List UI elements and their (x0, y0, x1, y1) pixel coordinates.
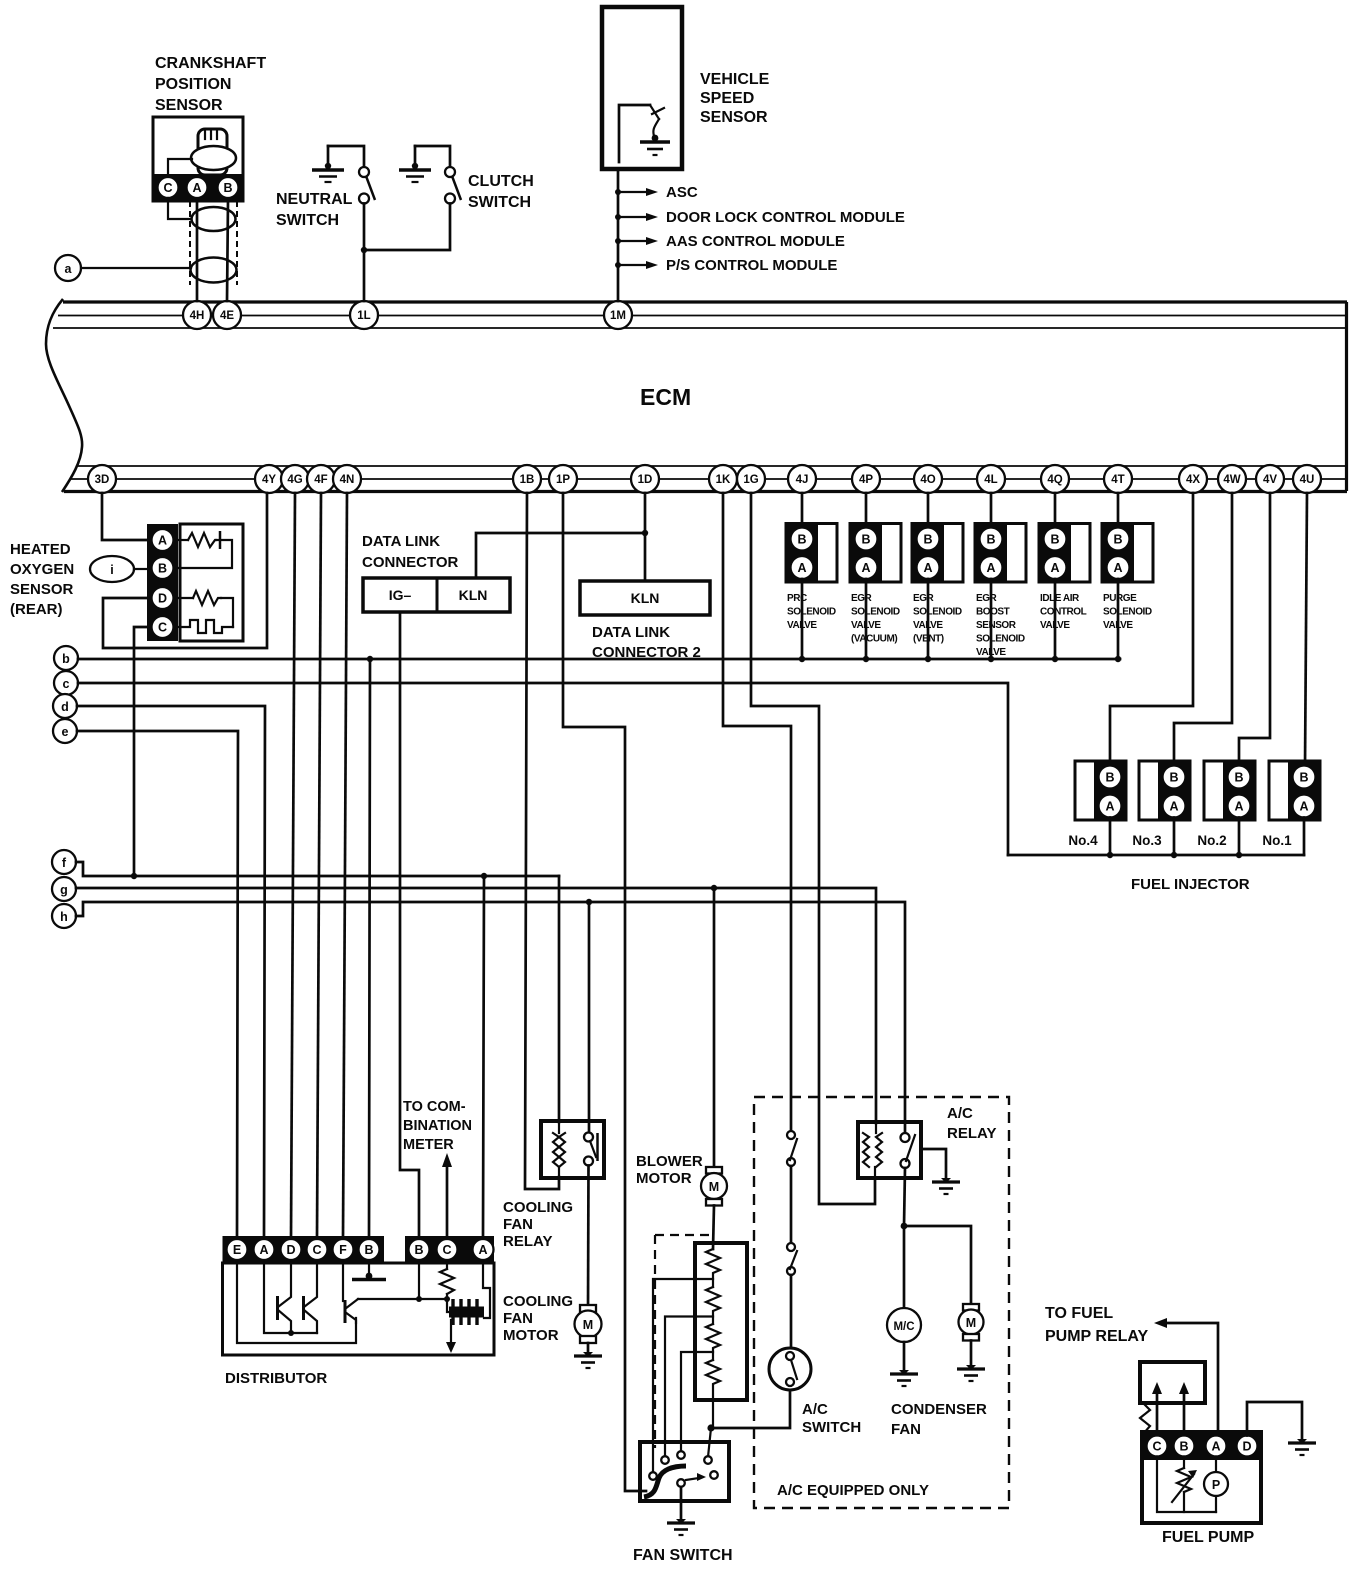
distributor pin A2 wire to coil (483, 1263, 490, 1318)
wire i to O2 pin B (134, 568, 147, 570)
svg-text:4O: 4O (920, 474, 935, 486)
wire O2 pin C down to node f line (134, 627, 147, 876)
svg-text:B: B (797, 533, 806, 547)
wire ECM 4Y to O2 pin D (103, 493, 267, 648)
svg-text:h: h (60, 910, 68, 924)
tap to P/S control module (615, 257, 837, 274)
wire blower motor feed (713, 888, 716, 1167)
svg-text:B: B (1179, 1440, 1188, 1454)
ECM pin 4P (852, 465, 880, 493)
fuel pump connector strip (1142, 1432, 1261, 1460)
svg-text:VALVE: VALVE (851, 620, 881, 631)
svg-text:B: B (414, 1243, 423, 1257)
svg-text:C: C (442, 1243, 451, 1257)
svg-text:4H: 4H (190, 310, 205, 322)
wire clutch switch to neutral wire (364, 204, 450, 251)
tap to ASC (615, 184, 698, 201)
node f (52, 850, 76, 874)
wire A/C switch to fan switch junction (711, 1390, 790, 1428)
data link connector label (362, 533, 459, 571)
tap to AAS control module (615, 233, 845, 250)
vehicle speed sensor label (700, 71, 770, 126)
wire to magnetic clutch (903, 1226, 906, 1308)
svg-text:COOLING: COOLING (503, 1293, 573, 1310)
data link connector (363, 578, 510, 612)
fan switch (640, 1442, 729, 1501)
svg-text:B: B (1050, 533, 1059, 547)
wire f line (76, 862, 559, 876)
junction g / blower motor (711, 885, 717, 891)
switch contact pair 2 (on 1K line) (787, 1243, 797, 1348)
svg-text:B: B (1169, 771, 1178, 785)
condenser fan label (891, 1401, 987, 1438)
svg-text:MOTOR: MOTOR (636, 1170, 692, 1187)
svg-text:FAN: FAN (503, 1310, 533, 1327)
svg-text:SWITCH: SWITCH (468, 194, 531, 211)
wire h line (76, 902, 905, 1134)
PRC solenoid valve (786, 493, 837, 662)
svg-text:4Q: 4Q (1047, 474, 1062, 486)
idle air control valve (1039, 493, 1090, 662)
svg-text:BINATION: BINATION (403, 1118, 472, 1134)
svg-text:4N: 4N (340, 474, 355, 486)
fuel pump ground (1288, 1439, 1316, 1455)
node a (55, 255, 81, 281)
svg-text:A: A (259, 1243, 268, 1257)
wire h branch down to cooling fan relay switch (588, 902, 591, 1133)
svg-text:A: A (1105, 800, 1114, 814)
A/C relay label (947, 1105, 996, 1142)
svg-text:COOLING: COOLING (503, 1199, 573, 1216)
ECM pin 1K (709, 465, 737, 493)
svg-text:A: A (192, 181, 201, 195)
blower resistor box (695, 1243, 747, 1400)
cooling fan relay label (503, 1199, 573, 1250)
svg-text:g: g (60, 883, 68, 897)
svg-text:SWITCH: SWITCH (802, 1419, 861, 1436)
wire g line (76, 888, 876, 1123)
ECM pin 4T (1104, 465, 1132, 493)
svg-text:OXYGEN: OXYGEN (10, 561, 74, 578)
ECM pin 4V (1256, 465, 1284, 493)
neutral switch label (276, 191, 353, 229)
svg-text:A: A (158, 534, 167, 548)
svg-text:KLN: KLN (631, 590, 660, 606)
svg-text:IDLE AIR: IDLE AIR (1040, 593, 1080, 604)
wire ECM 4F to distributor pin C (317, 493, 321, 1236)
svg-text:B: B (1299, 771, 1308, 785)
wire ECM 1B to cooling fan relay coil (525, 493, 559, 1189)
junction resistor bottom / A/C switch (707, 1424, 714, 1431)
node e (53, 719, 77, 743)
svg-text:SOLENOID: SOLENOID (851, 607, 900, 618)
svg-text:RELAY: RELAY (947, 1125, 996, 1142)
junction h branch to cooling fan relay switch (586, 899, 592, 905)
svg-text:FAN: FAN (891, 1421, 921, 1438)
transistor Q1 (278, 1263, 292, 1333)
cooling fan motor label (503, 1293, 573, 1344)
svg-text:TO FUEL: TO FUEL (1045, 1305, 1113, 1322)
ECM pin 1M (604, 301, 632, 329)
svg-text:TO COM-: TO COM- (403, 1099, 466, 1115)
svg-text:A: A (478, 1243, 487, 1257)
wire b bus to distributor pin B (369, 659, 370, 1236)
svg-text:BOOST: BOOST (976, 607, 1010, 618)
variable resistor R3 (fuel sender) (1172, 1457, 1197, 1513)
svg-text:A: A (1169, 800, 1178, 814)
svg-text:RELAY: RELAY (503, 1233, 552, 1250)
cooling fan motor ground (574, 1352, 602, 1368)
svg-text:P/S CONTROL MODULE: P/S CONTROL MODULE (666, 257, 837, 274)
svg-text:AAS CONTROL MODULE: AAS CONTROL MODULE (666, 233, 845, 250)
svg-text:1L: 1L (357, 310, 370, 322)
distributor pin E internal wire (237, 1263, 356, 1343)
svg-text:CLUTCH: CLUTCH (468, 173, 534, 190)
node i (90, 556, 134, 582)
ECM pin 4L (977, 465, 1005, 493)
data link connector 2 label (592, 624, 701, 661)
ECM pin 4J (788, 465, 816, 493)
svg-text:BLOWER: BLOWER (636, 1153, 703, 1170)
wire VSS to ECM 1M (617, 169, 620, 301)
distributor internal rail (358, 1298, 447, 1300)
svg-text:CONDENSER: CONDENSER (891, 1401, 987, 1418)
ECM pin 3D (88, 465, 116, 493)
svg-text:A: A (1113, 561, 1122, 575)
wire ECM 4N to distributor pin F (343, 493, 347, 1236)
A/C equipped only dashed box (754, 1097, 1009, 1508)
distributor connector strip 1 (223, 1236, 385, 1263)
svg-text:4E: 4E (220, 310, 234, 322)
svg-text:FAN SWITCH: FAN SWITCH (633, 1547, 733, 1564)
crankshaft position sensor (153, 117, 243, 285)
svg-text:a: a (65, 262, 73, 276)
svg-text:SOLENOID: SOLENOID (1103, 607, 1152, 618)
svg-text:DOOR LOCK CONTROL MODULE: DOOR LOCK CONTROL MODULE (666, 209, 905, 226)
node g (52, 877, 76, 901)
fuel injector No.1 (1262, 761, 1320, 855)
svg-text:B: B (1113, 533, 1122, 547)
transistor Q2 (304, 1263, 318, 1333)
svg-text:EGR: EGR (976, 593, 998, 604)
blower motor M2 (701, 1167, 727, 1249)
svg-text:SOLENOID: SOLENOID (913, 607, 962, 618)
svg-text:4F: 4F (314, 474, 327, 486)
svg-text:FUEL INJECTOR: FUEL INJECTOR (1131, 876, 1250, 893)
ECM pin 4W (1218, 465, 1246, 493)
svg-text:VEHICLE: VEHICLE (700, 71, 770, 88)
svg-text:M: M (583, 1318, 593, 1332)
svg-text:B: B (158, 562, 167, 576)
ECM module band (46, 299, 1347, 492)
svg-text:F: F (339, 1243, 347, 1257)
svg-text:(REAR): (REAR) (10, 601, 63, 618)
wire blower resistor tap 3 (681, 1352, 713, 1452)
svg-text:A: A (1299, 800, 1308, 814)
svg-text:D: D (286, 1243, 295, 1257)
svg-text:d: d (61, 700, 69, 714)
node b (54, 646, 78, 670)
svg-text:4W: 4W (1223, 474, 1240, 486)
svg-text:B: B (986, 533, 995, 547)
wire e to distributor pin E (77, 731, 238, 1236)
magnetic clutch ground (890, 1370, 918, 1386)
svg-text:4U: 4U (1300, 474, 1315, 486)
A/C relay (858, 1122, 921, 1178)
svg-text:POSITION: POSITION (155, 76, 231, 93)
wire f end down to cooling fan relay coil (558, 876, 561, 1122)
vehicle speed sensor (602, 7, 682, 169)
svg-text:4P: 4P (859, 474, 873, 486)
svg-text:SENSOR: SENSOR (976, 620, 1017, 631)
junction distributor rail (288, 1330, 294, 1336)
heated oxygen sensor (rear) (147, 524, 243, 641)
wire crank B pin to ECM 4E (227, 201, 228, 301)
svg-text:SOLENOID: SOLENOID (976, 634, 1025, 645)
wire ECM 4W to injector No.3 (1174, 493, 1232, 766)
ECM pin 4G (281, 465, 309, 493)
svg-text:DISTRIBUTOR: DISTRIBUTOR (225, 1370, 327, 1387)
svg-text:1P: 1P (556, 474, 570, 486)
svg-text:VALVE: VALVE (976, 647, 1006, 658)
svg-text:CONNECTOR: CONNECTOR (362, 554, 459, 571)
A/C switch (769, 1348, 811, 1390)
wire/arrow to fuel pump relay (1154, 1318, 1218, 1436)
svg-text:B: B (1105, 771, 1114, 785)
svg-text:KLN: KLN (459, 587, 488, 603)
svg-text:c: c (63, 677, 70, 691)
wire a to sensor (81, 267, 191, 269)
svg-text:M: M (709, 1180, 719, 1194)
svg-text:1K: 1K (716, 474, 731, 486)
svg-text:DATA LINK: DATA LINK (362, 533, 440, 550)
svg-text:IG–: IG– (389, 587, 412, 603)
wire ECM 4X to injector No.4 (1110, 493, 1193, 766)
svg-text:HEATED: HEATED (10, 541, 71, 558)
svg-text:C: C (163, 181, 172, 195)
condenser fan motor ground (957, 1365, 985, 1381)
svg-text:EGR: EGR (851, 593, 873, 604)
junction f / O2 C (131, 873, 137, 879)
svg-text:A: A (1211, 1440, 1220, 1454)
node d (53, 694, 77, 718)
svg-text:B: B (364, 1243, 373, 1257)
ECM pin 4O (914, 465, 942, 493)
svg-text:4Y: 4Y (262, 474, 276, 486)
svg-text:SENSOR: SENSOR (10, 581, 74, 598)
A/C relay ground (921, 1149, 960, 1194)
cooling fan relay (541, 1121, 604, 1178)
ECM pin 4Y (255, 465, 283, 493)
svg-text:B: B (861, 533, 870, 547)
junction 1D branch (642, 530, 648, 536)
svg-text:CRANKSHAFT: CRANKSHAFT (155, 55, 266, 72)
svg-text:b: b (62, 652, 70, 666)
to fuel pump relay label (1045, 1305, 1148, 1345)
svg-text:B: B (1234, 771, 1243, 785)
junction b bus to distributor pin B (367, 656, 373, 662)
svg-text:e: e (62, 725, 69, 739)
wire IG- to distributor 2 pin B (400, 612, 419, 1236)
svg-text:M: M (966, 1316, 976, 1330)
blower resistor dashed outline (655, 1235, 710, 1448)
svg-text:VALVE: VALVE (787, 620, 817, 631)
magnetic clutch M/C (887, 1308, 921, 1372)
crankshaft position sensor label (155, 55, 266, 114)
wire fuel pump D to ground (1247, 1402, 1302, 1441)
svg-text:A: A (861, 561, 870, 575)
arrow fuel pump C into box (1152, 1382, 1162, 1432)
svg-text:PUMP RELAY: PUMP RELAY (1045, 1328, 1148, 1345)
wire neutral switch to ECM 1L (363, 204, 366, 302)
wire d to distributor pin A (77, 706, 265, 1236)
svg-text:VALVE: VALVE (913, 620, 943, 631)
ECM pin 4F (307, 465, 335, 493)
svg-text:SOLENOID: SOLENOID (787, 607, 836, 618)
svg-text:No.2: No.2 (1197, 833, 1226, 848)
fan switch ground (667, 1487, 695, 1535)
svg-text:FUEL PUMP: FUEL PUMP (1162, 1529, 1254, 1546)
svg-text:i: i (110, 563, 113, 577)
svg-text:C: C (1152, 1440, 1161, 1454)
wire ECM 1K to A/C switch circuit (723, 493, 791, 1131)
ECM pin 1B (513, 465, 541, 493)
ECM pin 4X (1179, 465, 1207, 493)
neutral switch ground (312, 146, 344, 182)
svg-text:(VACUUM): (VACUUM) (851, 634, 897, 645)
svg-text:C: C (312, 1243, 321, 1257)
ECM pin 4Q (1041, 465, 1069, 493)
fuel pump box (1142, 1432, 1261, 1523)
svg-text:DATA LINK: DATA LINK (592, 624, 670, 641)
svg-text:3D: 3D (95, 474, 110, 486)
EGR boost sensor solenoid valve (975, 493, 1026, 662)
transistor Q3 (343, 1263, 358, 1323)
wire crank A pin to ECM 4H (196, 201, 199, 301)
svg-text:1B: 1B (520, 474, 535, 486)
spark output arrow (446, 1320, 456, 1353)
svg-text:A/C: A/C (802, 1401, 828, 1418)
svg-text:NEUTRAL: NEUTRAL (276, 191, 353, 208)
svg-text:CONTROL: CONTROL (1040, 607, 1087, 618)
svg-text:METER: METER (403, 1137, 454, 1153)
svg-text:1G: 1G (743, 474, 758, 486)
resistor R2 (blower) chain (706, 1249, 720, 1428)
wire junction to fan switch (708, 1428, 711, 1457)
node c (54, 671, 78, 695)
neutral switch (328, 146, 375, 204)
fuel pump check connector box (1140, 1362, 1205, 1403)
fuel pump internal wires (1157, 1457, 1216, 1513)
wire blower resistor tap 1 (653, 1279, 713, 1473)
wire ECM 4U to injector No.1 (1305, 493, 1307, 766)
ECM pin 4N (333, 465, 361, 493)
svg-text:P: P (1212, 1478, 1220, 1492)
svg-text:ECM: ECM (640, 384, 691, 410)
distributor pin B2 wire to rail (418, 1263, 420, 1299)
wire ECM 4G to distributor pin D (291, 493, 295, 1236)
arrow fuel pump B into box (1179, 1382, 1189, 1432)
svg-text:A: A (923, 561, 932, 575)
heated oxygen sensor label (10, 541, 74, 618)
blower motor label (636, 1153, 703, 1187)
wire fuel injector bus (1008, 854, 1304, 857)
svg-text:No.3: No.3 (1132, 833, 1162, 848)
wire A/C relay switch to condenser fans (904, 1168, 905, 1226)
svg-text:1D: 1D (638, 474, 653, 486)
svg-text:PURGE: PURGE (1103, 593, 1137, 604)
svg-text:No.1: No.1 (1262, 833, 1292, 848)
junction neutral/clutch (361, 247, 367, 253)
purge solenoid valve (1102, 493, 1153, 662)
arrow to combination meter (442, 1153, 452, 1236)
distributor pin A internal wire (264, 1263, 317, 1333)
svg-text:M/C: M/C (893, 1321, 914, 1333)
svg-text:E: E (233, 1243, 241, 1257)
svg-text:A: A (797, 561, 806, 575)
wire ECM 1D to data link connectors (476, 493, 645, 578)
wire c to fuel injector bus (78, 683, 1008, 855)
svg-text:SWITCH: SWITCH (276, 212, 339, 229)
svg-text:4L: 4L (984, 474, 997, 486)
resistor R1 (distributor) (440, 1263, 454, 1302)
wire ECM 1G to A/C relay coil (751, 493, 875, 1204)
to combination meter label (403, 1099, 472, 1153)
ECM pin 4E (213, 301, 241, 329)
svg-text:B: B (223, 181, 232, 195)
svg-text:A: A (986, 561, 995, 575)
distributor internal ground (352, 1263, 386, 1280)
wire b to solenoid valve bus (78, 658, 1120, 661)
distributor connector strip 2 (405, 1236, 494, 1263)
ECM pin 1D (631, 465, 659, 493)
ECM pin 1P (549, 465, 577, 493)
switch contact pair 1 (on 1K line) (787, 1131, 797, 1243)
node h (52, 904, 76, 928)
junction condenser fan branch (901, 1223, 908, 1230)
A/C switch label (802, 1401, 861, 1436)
svg-text:4T: 4T (1111, 474, 1124, 486)
EGR solenoid valve (vacuum) (850, 493, 901, 662)
wire ECM 3D to O2 pin A (102, 493, 147, 540)
svg-text:4V: 4V (1263, 474, 1277, 486)
svg-text:CONNECTOR 2: CONNECTOR 2 (592, 644, 701, 661)
svg-text:(VENT): (VENT) (913, 634, 944, 645)
ECM pin 1L (350, 301, 378, 329)
svg-text:MOTOR: MOTOR (503, 1327, 559, 1344)
svg-text:A/C: A/C (947, 1105, 973, 1122)
ECM pin 1G (737, 465, 765, 493)
ECM pin 4H (183, 301, 211, 329)
fuel injector No.2 (1197, 761, 1255, 858)
svg-text:B: B (923, 533, 932, 547)
svg-text:EGR: EGR (913, 593, 935, 604)
svg-text:PRC: PRC (787, 593, 807, 604)
svg-text:4J: 4J (796, 474, 809, 486)
svg-text:SPEED: SPEED (700, 90, 754, 107)
junction f branch to distributor 2 pin A (481, 873, 487, 879)
svg-text:D: D (158, 592, 167, 606)
wire ECM 1P to fan switch (563, 493, 646, 1491)
wire ECM 4V to injector No.2 (1239, 493, 1270, 766)
svg-text:A: A (1234, 800, 1243, 814)
svg-text:A: A (1050, 561, 1059, 575)
svg-text:1M: 1M (610, 310, 626, 322)
wire blower resistor tap 2 (665, 1317, 713, 1458)
wire to condenser fan motor right (904, 1226, 971, 1304)
wire 1D branch to data link connector 2 (644, 533, 647, 581)
clutch switch (415, 146, 461, 204)
